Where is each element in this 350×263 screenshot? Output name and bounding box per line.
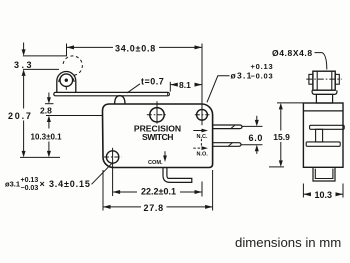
svg-text:22.2±0.1: 22.2±0.1	[141, 186, 176, 196]
svg-text:ø3.1: ø3.1	[231, 70, 253, 80]
svg-text:34.0±0.8: 34.0±0.8	[115, 43, 156, 53]
svg-text:−0.03: −0.03	[21, 185, 39, 192]
svg-text:−0.03: −0.03	[251, 71, 274, 80]
dimension 15.9	[277, 102, 303, 104]
N.C. arrow	[193, 130, 202, 132]
svg-text:10.3: 10.3	[315, 190, 333, 200]
dimension 10.3±0.1	[48, 142, 50, 152]
side view roller	[313, 71, 335, 90]
svg-text:3.3: 3.3	[14, 60, 34, 70]
svg-text:+0.13: +0.13	[251, 62, 274, 71]
side view bracket	[312, 90, 337, 94]
svg-text:N.C.: N.C.	[197, 134, 208, 140]
roller axle dot	[65, 79, 68, 82]
side view center post	[316, 129, 323, 142]
svg-text:8.1: 8.1	[179, 80, 191, 90]
svg-text:2.8: 2.8	[40, 106, 52, 116]
svg-text:10.3±0.1: 10.3±0.1	[31, 133, 63, 142]
leader ø3.1 bottom	[92, 164, 112, 185]
dashed link between N.C. and N.O.	[200, 139, 202, 147]
roller wheel	[60, 74, 73, 87]
svg-text:20.7: 20.7	[8, 111, 33, 121]
switch body outline	[102, 104, 212, 168]
svg-text:ø3.1: ø3.1	[5, 180, 20, 189]
leader t=0.7	[127, 84, 140, 93]
svg-text:t=0.7: t=0.7	[141, 77, 164, 87]
svg-text:+0.13: +0.13	[21, 177, 39, 184]
dimension 20.7	[23, 76, 25, 109]
N.O. arrow (dashed)	[193, 147, 201, 149]
svg-text:COM.: COM.	[148, 160, 163, 166]
side view roller centerline	[306, 78, 341, 80]
svg-text:SWITCH: SWITCH	[142, 132, 173, 142]
side view roller axle nubs	[309, 74, 313, 84]
mounting hole bottom-left	[106, 151, 118, 163]
svg-text:Ø4.8X4.8: Ø4.8X4.8	[272, 48, 313, 58]
svg-text:dimensions in mm: dimensions in mm	[235, 235, 341, 250]
COM down arrow	[164, 151, 166, 157]
roller free-position dashed arc	[63, 56, 82, 75]
plunger hole (middle)	[150, 108, 164, 122]
dimension 10.3 (side)	[302, 184, 304, 198]
plunger dome	[115, 96, 125, 104]
dimension 34.0±0.8	[66, 44, 68, 57]
roller bracket	[57, 71, 76, 92]
side view body	[303, 103, 343, 167]
leader ø4.8X4.8	[315, 53, 327, 70]
terminal N.O.	[213, 143, 241, 147]
dimension 2.8	[48, 93, 50, 98]
svg-text:15.9: 15.9	[273, 132, 290, 142]
mounting hole top-right	[197, 109, 208, 120]
terminal COM pin	[163, 168, 192, 183]
dimension 27.8	[102, 170, 104, 211]
dimension 3.3	[23, 55, 67, 57]
terminal N.C.	[213, 125, 242, 129]
svg-text:27.8: 27.8	[144, 203, 164, 213]
lever arm strip	[54, 92, 170, 95]
svg-text:N.O.: N.O.	[197, 151, 209, 157]
leader ø3.1 top	[207, 76, 230, 103]
dimension 22.2±0.1	[113, 191, 137, 193]
dimension 6.0	[242, 125, 263, 127]
side view N.C. terminal	[310, 125, 345, 129]
dimension 8.1	[169, 82, 171, 92]
svg-text:6.0: 6.0	[249, 133, 264, 143]
side view N.O. terminal	[306, 142, 340, 146]
svg-text:× 3.4±0.15: × 3.4±0.15	[40, 179, 91, 189]
side view lever neck	[316, 94, 332, 103]
side view bottom block	[313, 167, 335, 181]
